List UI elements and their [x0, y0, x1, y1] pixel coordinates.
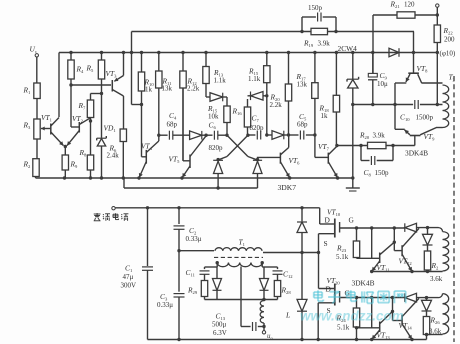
svg-text:3.9k: 3.9k [318, 40, 331, 48]
bottom return wire ch2 [425, 333, 428, 336]
capacitor C7 820p [256, 131, 258, 140]
wire R3 to R2 [36, 139, 38, 159]
resistor R11 13k [157, 51, 160, 54]
svg-text:0.33μ: 0.33μ [186, 235, 202, 243]
diode to VT5 collector node [190, 131, 202, 140]
svg-text:1500p: 1500p [416, 114, 434, 122]
R16 column with diode from R15-1.1k column [247, 99, 249, 107]
transistor VT3 [111, 80, 113, 92]
diode on gate rail 2 [405, 293, 417, 302]
svg-text:L: L [285, 311, 290, 320]
svg-text:500μ: 500μ [212, 321, 227, 329]
diode to VT6 collector node [272, 131, 284, 140]
mid supply rail [115, 207, 320, 209]
diode between R13 and R15 columns [206, 96, 210, 98]
input terminal Uc [35, 54, 38, 57]
gate drive rail 1 [355, 226, 358, 229]
svg-text:150p: 150p [308, 4, 323, 12]
capacitor C2 0.33u [177, 206, 180, 209]
resistor R10 1k [140, 51, 143, 54]
diode pull-down under VT4 side [213, 159, 223, 161]
T2 winding 3 [439, 294, 443, 298]
svg-text:13k: 13k [297, 81, 308, 89]
cross-coupled X wires [227, 135, 248, 156]
svg-text:1k: 1k [321, 112, 329, 120]
svg-text:10μ: 10μ [377, 80, 388, 88]
wire junction to R7 top [91, 93, 102, 95]
svg-text:820p: 820p [209, 144, 224, 152]
svg-text:150p: 150p [375, 169, 390, 177]
MOSFET VT10 [320, 223, 335, 225]
capacitor C13 500u 6.3V [241, 326, 251, 328]
svg-text:2CW4: 2CW4 [338, 44, 358, 53]
output terminal u0 [262, 331, 265, 334]
resistor R5 [101, 53, 103, 61]
upper emitter rail [36, 177, 353, 179]
clamp diode and R25 3.6k [427, 228, 429, 235]
diode on gate rail 1 [405, 223, 417, 232]
potentiometer R3 [34, 119, 40, 139]
diode on top rail [389, 48, 399, 57]
resistor R19 3.9k [311, 28, 328, 34]
wire y=104.5 with C10 [353, 104, 413, 106]
svg-text:68p: 68p [297, 121, 308, 129]
emitter tail node and R9 [64, 145, 67, 148]
bottom rail [148, 339, 427, 341]
svg-text:D: D [325, 216, 331, 225]
capacitor C6 820p [213, 131, 215, 140]
svg-text:2.2k: 2.2k [270, 101, 283, 109]
svg-text:2.4k: 2.4k [107, 152, 120, 160]
resistor 1.1k right group [265, 51, 268, 54]
svg-text:1.1k: 1.1k [248, 75, 261, 83]
svg-text:120: 120 [404, 1, 415, 9]
transistor VT6 [279, 153, 281, 164]
resistor R13 1.1k [204, 51, 207, 54]
svg-text:1.1k: 1.1k [214, 77, 227, 85]
svg-text:300V: 300V [121, 282, 137, 290]
output terminal [436, 4, 439, 7]
transistor VT5 [189, 155, 191, 169]
VT9 collector leg to T2 [420, 128, 436, 135]
VT1 base wiper arrow into R3 [41, 128, 51, 130]
rectifier diode left [216, 267, 218, 279]
capacitor C5 68p [299, 131, 301, 140]
transistor VT11 [357, 257, 380, 259]
svg-text:3DK7: 3DK7 [278, 183, 297, 192]
svg-text:820p: 820p [250, 124, 265, 132]
lower rail y=188 [124, 187, 258, 189]
wire R1 to R3 [36, 99, 38, 120]
transformer T2 winding 1 [443, 85, 449, 128]
transistor VT1 [50, 124, 52, 135]
drain diode column upper [300, 206, 303, 209]
resistor R7 [87, 100, 93, 118]
VT8 collector leg to T2 [418, 74, 422, 83]
transistor VT14 [392, 298, 394, 321]
capacitor C3 0.33u [178, 251, 180, 292]
resistor R24 5.1k [356, 298, 358, 309]
svg-text:www.cndzz.com: www.cndzz.com [300, 309, 404, 324]
T2 core dashed line [453, 76, 455, 342]
transistor VT8 [408, 72, 419, 74]
svg-text:0.33μ: 0.33μ [157, 301, 173, 309]
rectifier supply terminal [112, 207, 115, 210]
resistor R2 [33, 159, 39, 177]
emitter column down [394, 83, 396, 129]
resistor R22 200 [434, 25, 440, 43]
snubber C12 + R28 [262, 266, 277, 268]
capacitor C4 68p [168, 131, 170, 140]
resistor R4 [70, 53, 72, 61]
filter inductor L [260, 301, 264, 324]
wire R4 bottom junction [70, 79, 72, 127]
wire upper feedback y=31.5 [132, 31, 312, 33]
capacitor C10 1500p [414, 100, 416, 109]
wire R7 to VT2 collector node [90, 118, 92, 156]
emitter return wire ch1 [372, 271, 443, 273]
snubber C11 + R29 [205, 266, 218, 268]
transistor VT13 [357, 327, 380, 329]
resistor R23 5.1k [356, 228, 358, 241]
wire T1 to VT10 source [263, 252, 319, 254]
transistor VT7 [327, 153, 329, 164]
capacitor C1 47u 300V [147, 208, 149, 266]
watermark [314, 291, 322, 293]
left loop vertical from rail to VT1 collector [58, 53, 60, 118]
rectifier diode right [263, 267, 265, 279]
gate drive rail 2 [355, 296, 358, 299]
top supply rail y=52.5 [59, 52, 438, 54]
resistor R20 3.9k with C8 150p [337, 145, 368, 147]
svg-text:(φ10): (φ10) [440, 50, 456, 58]
svg-text:3.6k: 3.6k [430, 275, 443, 283]
MOSFET VT20 [319, 288, 335, 290]
wire to T1 primary [177, 249, 180, 252]
svg-text:3.9k: 3.9k [373, 132, 386, 140]
clamp diode and R26 3.6k [426, 298, 428, 301]
svg-text:5.1k: 5.1k [336, 253, 349, 261]
T1 secondary winding [217, 263, 262, 267]
svg-text:13k: 13k [162, 85, 173, 93]
svg-text:200: 200 [444, 36, 455, 44]
diode pull-down under VT5 side [253, 159, 262, 161]
svg-text:47μ: 47μ [123, 273, 134, 281]
transistor VT9 [410, 135, 421, 137]
svg-text:S: S [324, 239, 328, 248]
T1 secondary left end [216, 263, 218, 267]
diode pointing left into R16 top [248, 95, 251, 97]
node: VT3 base feed wire [71, 84, 111, 86]
transistor VT2 [78, 122, 80, 133]
resistor R6 2.4k [120, 129, 126, 142]
resistor R8 [87, 155, 93, 170]
T1 secondary right end [261, 263, 263, 267]
wire y=135 right astable [267, 134, 272, 136]
T2 winding 2 [439, 228, 443, 232]
R21 120 branch [373, 14, 397, 16]
astable coupling wire y=135.2 [159, 134, 168, 136]
wire R5 bottom to junction [101, 79, 103, 138]
zener 2CW4 [351, 51, 354, 54]
transistor VT12 [393, 228, 395, 251]
150p feedback capacitor loop [302, 16, 316, 18]
drain diode column lower [301, 253, 303, 300]
wire Uc down to R1 [36, 57, 38, 83]
svg-text:G: G [349, 216, 355, 225]
T1 center tap [240, 267, 242, 327]
capacitor C9 10u [371, 51, 374, 54]
svg-text:2.2k: 2.2k [187, 85, 200, 93]
resistor R1 [34, 83, 40, 99]
VT8 collector vertical [413, 32, 415, 74]
resistor R15 10k [226, 97, 228, 106]
svg-text:3DK4B: 3DK4B [352, 279, 375, 288]
output filter node wire [205, 299, 278, 301]
svg-text:6.3V: 6.3V [213, 329, 227, 337]
svg-text:10k: 10k [208, 113, 219, 121]
resistor R12 2.2k [181, 51, 184, 54]
svg-text:3DK4B: 3DK4B [405, 149, 428, 158]
svg-text:68p: 68p [167, 121, 178, 129]
ground symbol [351, 176, 354, 179]
transistor VT4 [145, 150, 147, 164]
svg-text:5.1k: 5.1k [337, 324, 350, 332]
svg-text:1k: 1k [145, 86, 153, 94]
